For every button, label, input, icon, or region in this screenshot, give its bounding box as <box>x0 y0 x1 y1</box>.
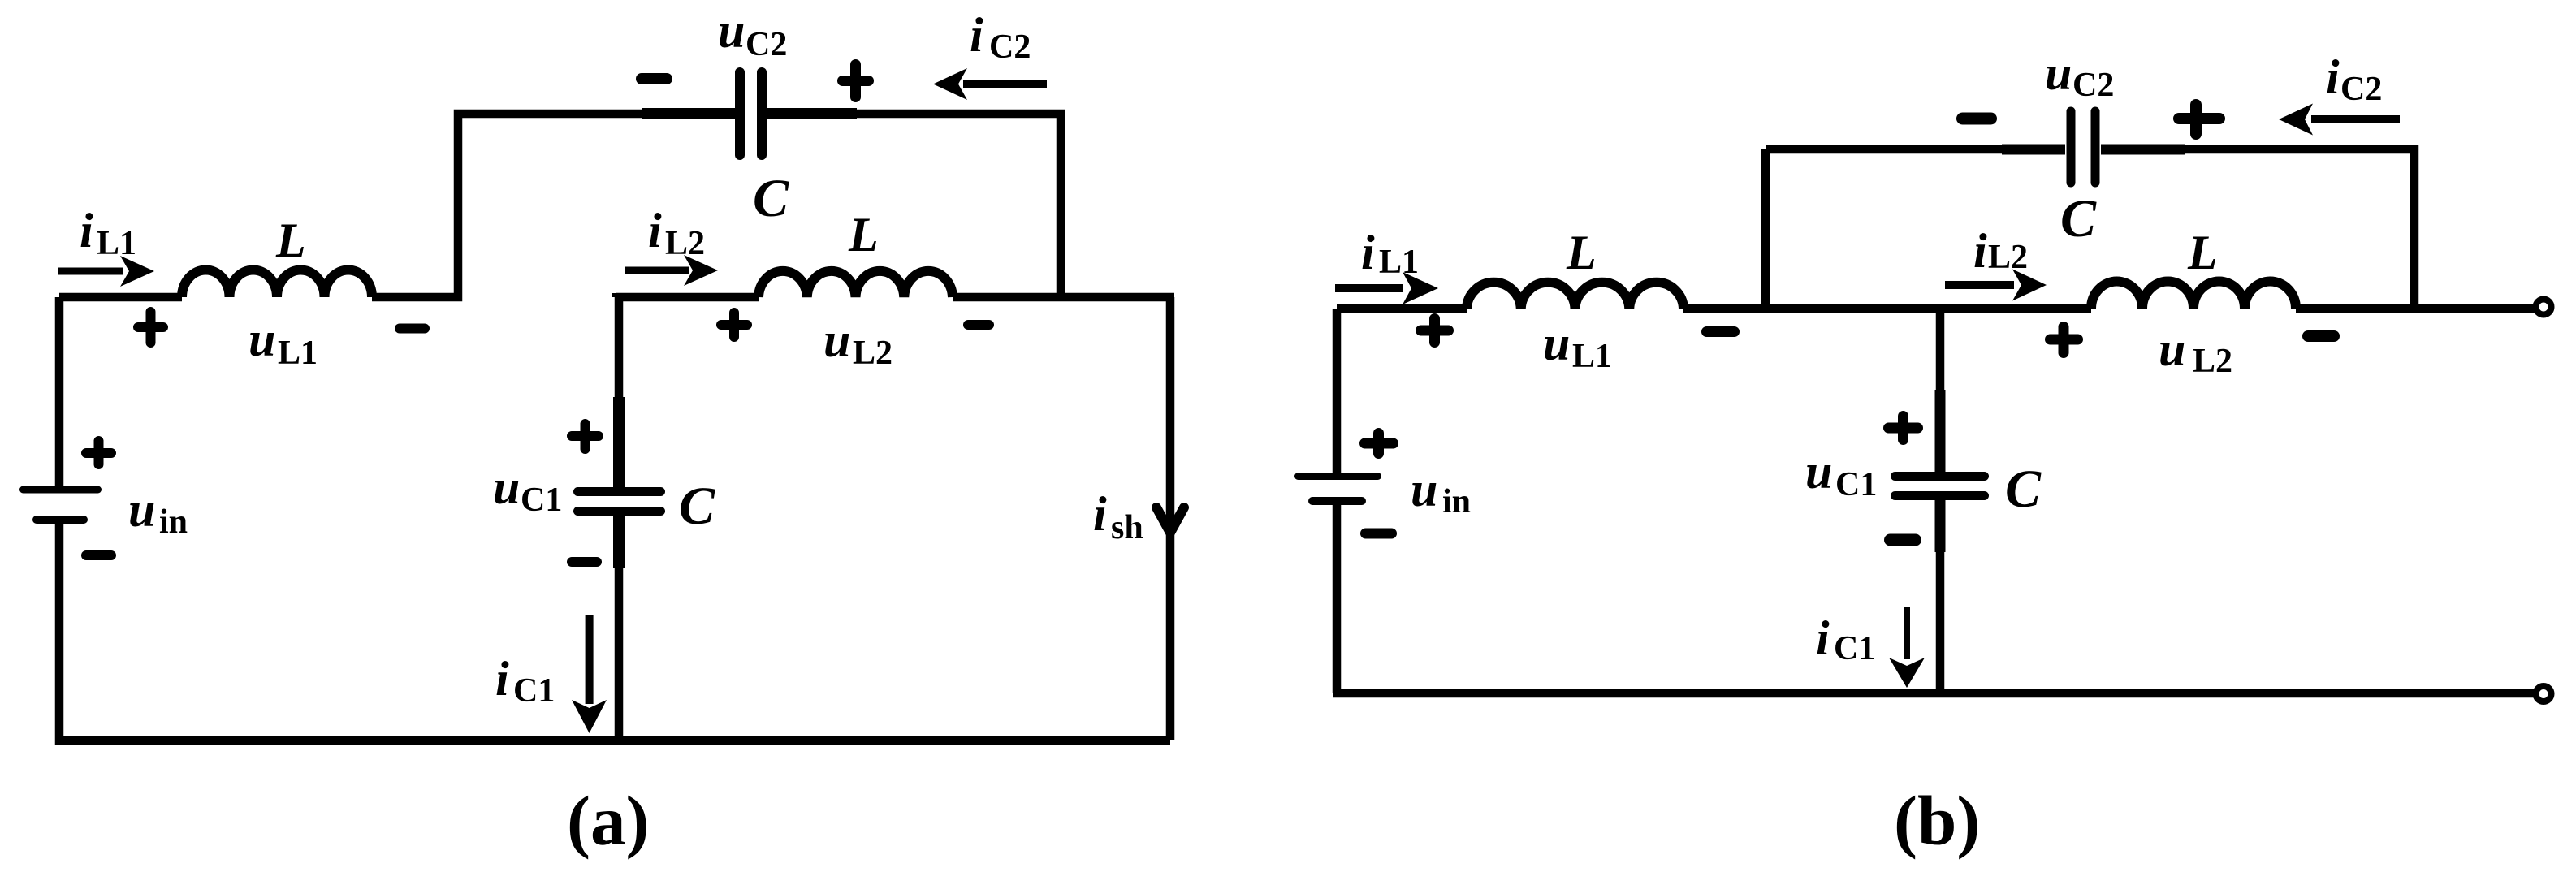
svg-text:u: u <box>1805 445 1832 499</box>
svg-text:in: in <box>159 503 188 541</box>
svg-text:C: C <box>753 169 789 228</box>
svg-text:in: in <box>1442 483 1471 520</box>
svg-text:L: L <box>1566 226 1597 279</box>
svg-text:C1: C1 <box>1835 466 1877 503</box>
svg-text:L: L <box>2187 226 2218 279</box>
svg-text:sh: sh <box>1111 509 1143 546</box>
svg-text:L: L <box>275 214 306 267</box>
svg-text:L2: L2 <box>665 225 705 262</box>
svg-text:u: u <box>493 460 520 514</box>
svg-text:i: i <box>1973 224 1987 278</box>
svg-text:i: i <box>80 204 93 257</box>
svg-text:C2: C2 <box>746 26 787 63</box>
svg-text:C: C <box>2005 460 2042 519</box>
svg-text:C1: C1 <box>513 672 555 710</box>
svg-text:u: u <box>823 313 850 367</box>
svg-text:i: i <box>2326 50 2340 104</box>
svg-text:i: i <box>1093 487 1107 541</box>
svg-text:(a): (a) <box>567 781 649 860</box>
svg-text:(b): (b) <box>1894 781 1980 860</box>
svg-text:C1: C1 <box>1834 630 1875 667</box>
svg-text:C2: C2 <box>2340 71 2382 108</box>
svg-text:C2: C2 <box>989 28 1031 66</box>
svg-text:L1: L1 <box>97 225 136 262</box>
svg-text:L2: L2 <box>853 335 893 372</box>
svg-text:u: u <box>249 313 275 366</box>
svg-text:L: L <box>848 208 879 261</box>
svg-text:u: u <box>1411 463 1437 516</box>
svg-text:u: u <box>1543 317 1570 370</box>
svg-text:L2: L2 <box>1988 239 2028 276</box>
svg-text:i: i <box>1361 226 1375 279</box>
svg-text:i: i <box>1816 611 1830 665</box>
svg-text:L1: L1 <box>1379 244 1419 281</box>
svg-text:L2: L2 <box>2193 343 2232 380</box>
svg-text:u: u <box>718 4 745 58</box>
svg-text:u: u <box>128 483 155 537</box>
svg-text:i: i <box>970 8 983 62</box>
svg-text:i: i <box>648 204 662 257</box>
svg-text:C2: C2 <box>2072 67 2114 104</box>
svg-text:C: C <box>679 477 715 536</box>
svg-text:i: i <box>495 652 509 706</box>
svg-text:L1: L1 <box>1572 338 1612 375</box>
svg-text:L1: L1 <box>278 335 318 372</box>
svg-text:C: C <box>2060 189 2097 248</box>
svg-text:u: u <box>2045 46 2072 100</box>
svg-text:C1: C1 <box>521 481 562 519</box>
svg-text:u: u <box>2159 322 2185 376</box>
